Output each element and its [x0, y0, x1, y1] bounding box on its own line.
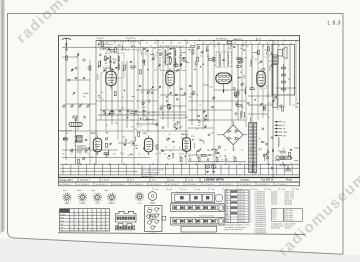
svg-text:0,5: 0,5: [255, 59, 258, 61]
svg-text:220: 220: [200, 52, 203, 54]
svg-text:30: 30: [175, 63, 177, 65]
svg-text:470: 470: [279, 165, 282, 167]
svg-text:04: 04: [296, 107, 298, 109]
svg-text:7: 7: [93, 230, 94, 232]
svg-text:3: 3: [97, 230, 98, 232]
svg-text:12: 12: [250, 221, 252, 223]
svg-text:Fe: Fe: [288, 79, 290, 81]
svg-text:1k: 1k: [164, 57, 166, 59]
svg-text:8p: 8p: [83, 96, 85, 98]
svg-text:10: 10: [140, 125, 142, 127]
svg-text:50: 50: [169, 70, 171, 72]
svg-text:470: 470: [207, 56, 210, 58]
svg-text:220: 220: [186, 131, 189, 133]
svg-text:10: 10: [221, 160, 223, 162]
svg-text:7 ab: 7 ab: [211, 189, 214, 191]
svg-text:5 12 55: 5 12 55: [102, 180, 110, 182]
svg-text:5k: 5k: [166, 46, 168, 48]
svg-text:04: 04: [190, 94, 192, 96]
svg-text:»Luna«: »Luna«: [240, 178, 249, 182]
svg-text:13 ab: 13 ab: [295, 189, 299, 191]
svg-text:4: 4: [106, 230, 107, 232]
svg-text:a 1.2 b 3.4 c 5: a 1.2 b 3.4 c 5: [258, 184, 269, 186]
svg-text:8p: 8p: [113, 59, 115, 61]
svg-text:587 W 010: 587 W 010: [285, 204, 293, 206]
svg-text:50: 50: [184, 140, 186, 142]
svg-text:LOEWE OPTA: LOEWE OPTA: [204, 178, 225, 182]
svg-text:1k: 1k: [268, 103, 270, 105]
svg-text:1k: 1k: [196, 157, 198, 159]
svg-text:4: 4: [272, 161, 273, 163]
svg-text:04: 04: [196, 95, 198, 97]
svg-text:500: 500: [278, 151, 281, 153]
svg-text:10k 0,25: 10k 0,25: [239, 221, 245, 223]
svg-text:1: 1: [79, 230, 80, 232]
svg-text:0,1: 0,1: [263, 142, 266, 144]
svg-text:6,3: 6,3: [283, 149, 286, 151]
svg-text:0: 0: [88, 214, 89, 216]
svg-text:a 1.2 b 3.4 c 5: a 1.2 b 3.4 c 5: [96, 184, 107, 186]
svg-text:25: 25: [155, 56, 157, 58]
svg-text:5n: 5n: [134, 115, 136, 117]
svg-text:EABC80: EABC80: [181, 133, 188, 136]
svg-text:10: 10: [150, 46, 152, 48]
svg-text:100: 100: [192, 91, 195, 93]
svg-text:125: 125: [246, 46, 249, 48]
svg-text:220: 220: [154, 43, 157, 45]
svg-text:15k: 15k: [259, 148, 262, 150]
svg-text:ECH81 B6: ECH81 B6: [216, 38, 227, 40]
svg-text:Sp3 25m: Sp3 25m: [271, 196, 278, 198]
svg-text:12.55: 12.55: [188, 180, 194, 182]
svg-text:125: 125: [211, 132, 214, 134]
svg-text:2n: 2n: [111, 115, 113, 117]
svg-text:50: 50: [128, 155, 130, 157]
svg-text:6,3: 6,3: [104, 114, 107, 116]
svg-text:3: 3: [102, 224, 103, 226]
svg-text:25: 25: [250, 43, 252, 45]
svg-text:Sp1 25m: Sp1 25m: [271, 191, 278, 193]
svg-text:220: 220: [121, 107, 124, 109]
svg-text:KL: KL: [283, 125, 285, 127]
svg-text:470: 470: [181, 154, 184, 156]
svg-text:Skala 587-12: Skala 587-12: [271, 228, 280, 230]
svg-text:8p: 8p: [162, 43, 164, 45]
svg-text:30: 30: [274, 43, 276, 45]
svg-text:4: 4: [75, 227, 76, 229]
svg-text:5n: 5n: [101, 92, 103, 94]
svg-text:6: 6: [93, 224, 94, 226]
svg-text:30.927 85r: 30.927 85r: [126, 38, 136, 40]
svg-text:0: 0: [79, 214, 80, 216]
svg-text:4: 4: [88, 217, 89, 219]
svg-text:04: 04: [139, 154, 141, 156]
svg-text:5n: 5n: [179, 127, 181, 129]
svg-text:0: 0: [75, 214, 76, 216]
svg-text:5k: 5k: [106, 43, 108, 45]
svg-text:0,5: 0,5: [214, 46, 216, 48]
svg-text:04: 04: [127, 50, 129, 52]
svg-text:50: 50: [145, 47, 147, 49]
svg-text:10: 10: [250, 216, 252, 218]
svg-text:25: 25: [262, 46, 264, 48]
svg-text:125: 125: [264, 50, 267, 52]
svg-text:30: 30: [266, 86, 268, 88]
svg-text:25: 25: [290, 43, 292, 45]
svg-text:5k: 5k: [159, 153, 161, 155]
svg-text:2n: 2n: [208, 150, 210, 152]
svg-text:0,5: 0,5: [214, 65, 217, 67]
svg-text:5k: 5k: [259, 138, 261, 140]
svg-text:6 ab: 6 ab: [197, 189, 200, 191]
svg-text:10: 10: [107, 156, 109, 158]
svg-text:1k: 1k: [229, 44, 231, 46]
svg-text:Sp7 25m: Sp7 25m: [271, 204, 278, 206]
svg-text:5n: 5n: [277, 159, 279, 161]
svg-text:12 ab: 12 ab: [281, 189, 285, 191]
svg-text:04: 04: [122, 97, 124, 99]
svg-text:5n: 5n: [131, 120, 133, 122]
svg-text:10: 10: [267, 110, 269, 112]
svg-text:30: 30: [106, 125, 108, 127]
svg-text:0,1: 0,1: [134, 141, 137, 143]
svg-text:NSL: NSL: [283, 135, 287, 137]
svg-text:4 ab: 4 ab: [169, 189, 172, 191]
svg-text:15k: 15k: [122, 136, 125, 138]
svg-text:125: 125: [178, 43, 181, 45]
svg-text:6: 6: [84, 230, 85, 232]
svg-text:6,3: 6,3: [219, 156, 222, 158]
svg-text:1k: 1k: [199, 105, 201, 107]
svg-text:10: 10: [179, 154, 181, 156]
svg-text:10k 0,25: 10k 0,25: [239, 197, 245, 199]
svg-text:0: 0: [93, 214, 94, 216]
svg-text:10k 0,25: 10k 0,25: [239, 216, 245, 218]
svg-text:DREHKO: DREHKO: [108, 203, 116, 205]
svg-text:5k: 5k: [96, 154, 98, 156]
svg-text:0: 0: [70, 217, 71, 219]
svg-text:0: 0: [70, 227, 71, 229]
svg-text:25: 25: [136, 148, 138, 150]
svg-text:0: 0: [70, 230, 71, 232]
svg-text:6,3: 6,3: [66, 132, 69, 134]
svg-text:gepr.: gepr.: [170, 179, 175, 182]
svg-text:1k: 1k: [170, 150, 172, 152]
svg-text:5n: 5n: [210, 43, 212, 45]
svg-text:W11: W11: [226, 221, 229, 223]
svg-text:2n: 2n: [169, 134, 171, 136]
svg-text:10k 0,25: 10k 0,25: [239, 199, 245, 201]
svg-text:587 W 010: 587 W 010: [285, 200, 293, 202]
svg-text:LW: LW: [61, 224, 64, 226]
svg-text:15k: 15k: [189, 96, 192, 98]
svg-text:10: 10: [115, 46, 117, 48]
svg-text:ECC85: ECC85: [103, 68, 111, 70]
svg-text:W3: W3: [226, 199, 228, 201]
svg-text:6: 6: [97, 217, 98, 219]
svg-text:15k: 15k: [70, 152, 73, 154]
svg-text:gegen Chassis gemessen.: gegen Chassis gemessen.: [225, 229, 244, 231]
svg-text:3 ab: 3 ab: [155, 189, 158, 191]
svg-text:220: 220: [154, 70, 157, 72]
svg-text:Sp4 25m: Sp4 25m: [271, 198, 278, 200]
svg-text:5n: 5n: [194, 43, 196, 45]
svg-text:04: 04: [114, 43, 116, 45]
svg-text:0,5: 0,5: [267, 150, 269, 152]
svg-text:2n: 2n: [120, 152, 122, 154]
svg-text:50: 50: [91, 133, 93, 135]
svg-text:5k: 5k: [146, 43, 148, 45]
svg-text:0,1: 0,1: [200, 56, 203, 58]
svg-text:10: 10: [173, 147, 175, 149]
svg-text:3: 3: [84, 227, 85, 229]
svg-text:2n: 2n: [293, 105, 295, 107]
svg-text:0,5: 0,5: [180, 54, 183, 56]
svg-text:Bass: Bass: [63, 190, 67, 192]
svg-text:UKW: UKW: [96, 203, 100, 205]
svg-text:a 1.2 b 3.4 c 5: a 1.2 b 3.4 c 5: [240, 184, 251, 186]
svg-text:125: 125: [191, 136, 194, 138]
svg-text:04: 04: [242, 43, 244, 45]
svg-text:0,1: 0,1: [139, 50, 142, 52]
svg-text:8p: 8p: [268, 117, 270, 119]
svg-text:470: 470: [244, 58, 247, 60]
svg-text:L2 0,4: L2 0,4: [272, 211, 276, 213]
svg-text:W7: W7: [226, 210, 228, 212]
svg-text:6: 6: [79, 224, 80, 226]
svg-text:L: L: [288, 69, 289, 71]
svg-text:3: 3: [84, 217, 85, 219]
svg-text:W2: W2: [226, 197, 228, 199]
svg-text:470: 470: [143, 107, 146, 109]
svg-text:a 1.2 b 3.4 c 5: a 1.2 b 3.4 c 5: [204, 184, 215, 186]
svg-text:10: 10: [156, 53, 158, 55]
svg-text:a 1.2 b 3.4 c 5: a 1.2 b 3.4 c 5: [60, 184, 71, 186]
svg-text:2n: 2n: [102, 99, 104, 101]
svg-text:125: 125: [122, 154, 125, 156]
svg-text:MW: MW: [61, 221, 65, 223]
svg-text:1k: 1k: [290, 163, 292, 165]
svg-text:W6: W6: [226, 208, 228, 210]
svg-text:0,5: 0,5: [91, 157, 94, 159]
svg-text:Höhen: Höhen: [77, 190, 82, 192]
svg-text:6,3: 6,3: [81, 104, 84, 106]
svg-text:W4: W4: [226, 202, 228, 204]
svg-text:8p: 8p: [238, 77, 240, 79]
svg-text:a 1.2 b 3.4 c 5: a 1.2 b 3.4 c 5: [132, 184, 143, 186]
svg-text:100: 100: [172, 142, 175, 144]
svg-text:10k 0,25: 10k 0,25: [239, 191, 245, 193]
svg-text:2n: 2n: [282, 43, 284, 45]
svg-text:L 8.3: L 8.3: [328, 20, 341, 26]
svg-text:2n: 2n: [87, 68, 89, 70]
svg-text:W8: W8: [226, 213, 228, 215]
svg-text:220: 220: [202, 43, 205, 45]
svg-text:Sp5 25m: Sp5 25m: [271, 200, 278, 202]
svg-text:SKALA: SKALA: [150, 202, 156, 205]
svg-text:8p: 8p: [215, 156, 217, 158]
svg-text:5k: 5k: [156, 154, 158, 156]
svg-text:6,3: 6,3: [131, 69, 134, 71]
svg-text:04: 04: [205, 125, 207, 127]
svg-text:10: 10: [179, 156, 181, 158]
svg-text:100: 100: [188, 156, 191, 158]
svg-text:KW: KW: [61, 218, 64, 220]
svg-text:Schalt 4377: Schalt 4377: [60, 179, 74, 182]
svg-text:10k 0,25: 10k 0,25: [239, 213, 245, 215]
svg-text:6: 6: [106, 224, 107, 226]
svg-text:3: 3: [88, 224, 89, 226]
svg-text:0: 0: [102, 214, 103, 216]
svg-text:1k: 1k: [182, 46, 184, 48]
svg-text:W5: W5: [226, 205, 228, 207]
svg-text:30: 30: [162, 113, 164, 115]
svg-text:10 ab: 10 ab: [253, 189, 257, 191]
svg-text:3: 3: [97, 221, 98, 223]
svg-text:470: 470: [210, 86, 213, 88]
svg-text:3: 3: [75, 224, 76, 226]
svg-text:Ausgabe 1: Ausgabe 1: [80, 179, 91, 182]
svg-text:15k: 15k: [62, 154, 65, 156]
svg-text:Typ 587 W: Typ 587 W: [261, 178, 274, 182]
svg-text:11 ab: 11 ab: [267, 189, 271, 191]
svg-text:0,5: 0,5: [249, 66, 252, 68]
svg-text:470: 470: [168, 158, 171, 160]
svg-text:0,1: 0,1: [130, 43, 132, 45]
svg-text:7: 7: [88, 227, 89, 229]
svg-text:100: 100: [186, 43, 189, 45]
svg-text:2121b-50: 2121b-50: [96, 38, 105, 40]
svg-text:1k: 1k: [163, 62, 165, 64]
svg-text:UKW: UKW: [283, 132, 287, 134]
svg-text:1k: 1k: [265, 57, 267, 59]
svg-text:1: 1: [102, 227, 103, 229]
svg-text:10: 10: [233, 156, 235, 158]
svg-text:2n: 2n: [134, 46, 136, 48]
svg-text:25: 25: [165, 147, 167, 149]
svg-text:U 87: U 87: [138, 203, 142, 205]
svg-text:0: 0: [106, 214, 107, 216]
svg-text:0,5: 0,5: [241, 150, 243, 152]
svg-text:10: 10: [225, 155, 227, 157]
svg-text:Punkt: Punkt: [286, 179, 292, 182]
svg-text:L3 0,4: L3 0,4: [272, 213, 276, 215]
svg-text:Sp6 25m: Sp6 25m: [271, 202, 278, 204]
svg-text:1k: 1k: [169, 57, 171, 59]
svg-text:15k: 15k: [233, 150, 236, 152]
svg-text:04: 04: [269, 61, 271, 63]
svg-text:15k: 15k: [74, 137, 77, 139]
svg-text:125: 125: [152, 112, 155, 114]
svg-text:587 W 010: 587 W 010: [285, 202, 293, 204]
svg-text:7: 7: [106, 221, 107, 223]
svg-text:Sp2 25m: Sp2 25m: [271, 194, 278, 196]
svg-text:10k 0,25: 10k 0,25: [239, 194, 245, 196]
svg-text:15k: 15k: [234, 43, 237, 45]
svg-text:470: 470: [147, 112, 150, 114]
svg-text:0,1: 0,1: [185, 93, 188, 95]
svg-text:5n: 5n: [71, 154, 73, 156]
svg-text:5k: 5k: [195, 66, 197, 68]
svg-text:10k 0,25: 10k 0,25: [239, 205, 245, 207]
svg-text:10: 10: [79, 154, 81, 156]
svg-text:6: 6: [97, 227, 98, 229]
svg-text:0,1: 0,1: [179, 147, 182, 149]
svg-text:W10: W10: [226, 218, 229, 220]
svg-text:UKW: UKW: [61, 214, 66, 216]
svg-text:10k 0,25: 10k 0,25: [239, 202, 245, 204]
svg-text:11: 11: [250, 218, 252, 220]
svg-text:0,1: 0,1: [164, 154, 166, 156]
svg-text:a 1.2 b 3.4 c 5: a 1.2 b 3.4 c 5: [150, 184, 161, 186]
svg-text:W9: W9: [226, 216, 228, 218]
svg-text:L5 0,4: L5 0,4: [272, 217, 276, 219]
svg-text:100: 100: [258, 43, 261, 45]
svg-text:25: 25: [145, 54, 147, 56]
svg-text:6: 6: [84, 221, 85, 223]
svg-text:a 1.2 b 3.4 c 5: a 1.2 b 3.4 c 5: [276, 184, 287, 186]
svg-text:8p: 8p: [179, 57, 181, 59]
svg-text:125: 125: [229, 48, 232, 50]
svg-text:L4 0,4: L4 0,4: [272, 215, 276, 217]
svg-text:KLANG: KLANG: [80, 202, 86, 205]
svg-text:50: 50: [105, 63, 107, 65]
svg-text:6,3: 6,3: [131, 141, 134, 143]
svg-text:220: 220: [134, 129, 137, 131]
svg-text:1k: 1k: [88, 154, 90, 156]
svg-text:470: 470: [217, 44, 220, 46]
svg-text:10k 0,25: 10k 0,25: [239, 218, 245, 220]
svg-text:a 1.2 b 3.4 c 5: a 1.2 b 3.4 c 5: [78, 184, 89, 186]
svg-text:0: 0: [70, 221, 71, 223]
svg-text:W0: W0: [226, 191, 228, 193]
svg-text:100: 100: [240, 48, 243, 50]
svg-text:5k: 5k: [190, 150, 192, 152]
svg-text:100: 100: [138, 43, 141, 45]
svg-text:a 1.2 b 3.4 c 5: a 1.2 b 3.4 c 5: [168, 184, 179, 186]
svg-text:W1: W1: [226, 194, 228, 196]
svg-text:470: 470: [113, 154, 116, 156]
svg-text:25: 25: [251, 57, 253, 59]
svg-text:EL84: EL84: [256, 38, 262, 40]
svg-text:a 1.2 b 3.4 c 5: a 1.2 b 3.4 c 5: [222, 184, 233, 186]
svg-text:30: 30: [196, 129, 198, 131]
svg-text:1: 1: [93, 221, 94, 223]
svg-text:30: 30: [122, 43, 124, 45]
svg-text:25: 25: [224, 150, 226, 152]
svg-text:8p: 8p: [141, 92, 143, 94]
svg-text:L6 0,4: L6 0,4: [272, 219, 276, 221]
svg-text:7: 7: [102, 217, 103, 219]
svg-text:50: 50: [154, 48, 156, 50]
svg-text:1: 1: [75, 217, 76, 219]
svg-text:0,1: 0,1: [278, 46, 280, 48]
svg-text:10k 0,25: 10k 0,25: [239, 208, 245, 210]
svg-text:04: 04: [144, 116, 146, 118]
svg-text:5 ab: 5 ab: [183, 189, 186, 191]
svg-text:4: 4: [79, 221, 80, 223]
svg-text:04: 04: [198, 125, 200, 127]
svg-text:220: 220: [118, 46, 121, 48]
svg-text:220: 220: [147, 154, 150, 156]
svg-text:10k 0,25: 10k 0,25: [239, 210, 245, 212]
svg-text:0,5: 0,5: [124, 49, 127, 51]
svg-text:a 1.2 b 3.4 c 5: a 1.2 b 3.4 c 5: [114, 184, 125, 186]
svg-text:0,1: 0,1: [268, 55, 271, 57]
svg-text:a 1.2 b 3.4 c 5: a 1.2 b 3.4 c 5: [186, 184, 197, 186]
